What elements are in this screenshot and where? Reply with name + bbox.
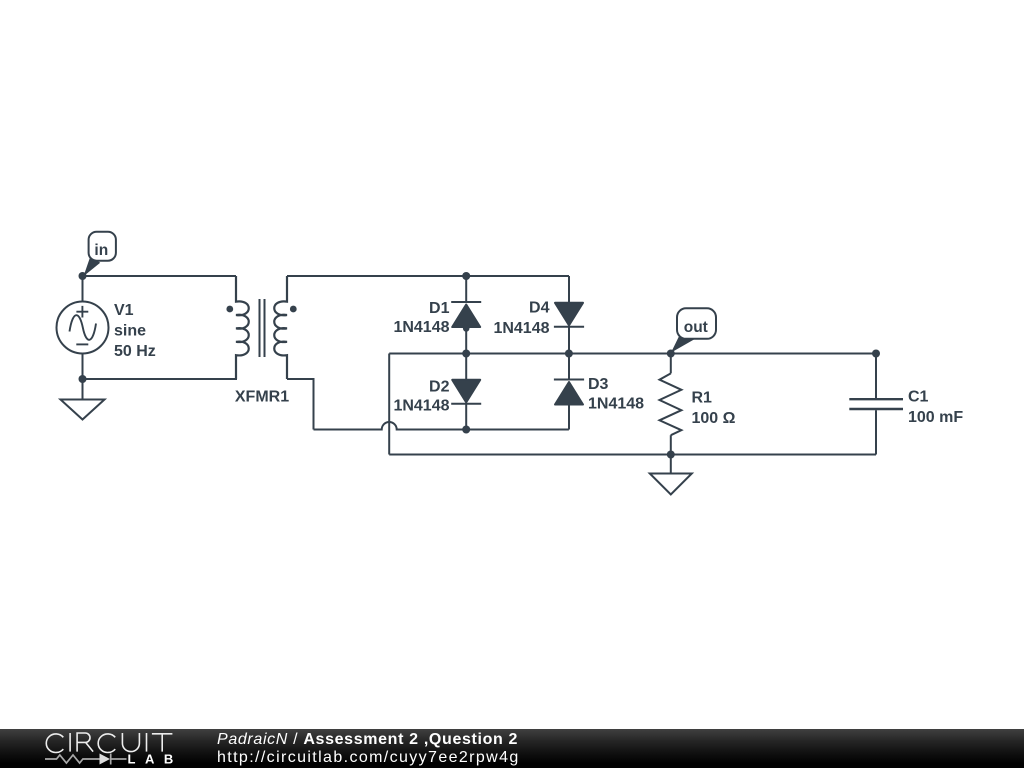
svg-text:V1: V1 <box>114 302 134 319</box>
transformer XFMR1 secondary winding <box>274 276 287 379</box>
svg-text:sine: sine <box>114 323 146 340</box>
wire cross vertical (middle rail to lower rail) <box>388 354 390 455</box>
transformer secondary dot <box>290 306 297 313</box>
wire top rail left (in node to transformer primary) <box>83 275 237 277</box>
letter U <box>122 733 139 752</box>
svg-text:out: out <box>684 319 708 336</box>
node dot top rail D1 <box>462 272 470 280</box>
node dot C1 top <box>872 350 880 358</box>
svg-text:1N4148: 1N4148 <box>588 396 644 413</box>
svg-text:XFMR1: XFMR1 <box>235 389 289 406</box>
letter R <box>77 733 93 752</box>
letter C <box>46 734 63 753</box>
wire middle rail <box>389 353 876 355</box>
footer url line <box>217 749 520 767</box>
wire out node to R1 top <box>670 354 672 374</box>
node dot in <box>79 272 87 280</box>
wire C1 top <box>875 354 877 399</box>
svg-text:D2: D2 <box>429 379 450 396</box>
CircuitLab logo wordmark <box>0 729 200 768</box>
node dot bottom rail D2 <box>462 426 470 434</box>
svg-text:1N4148: 1N4148 <box>493 320 549 337</box>
svg-text:100 mF: 100 mF <box>908 409 963 426</box>
letter C <box>98 734 115 753</box>
svg-text:1N4148: 1N4148 <box>393 319 449 336</box>
svg-text:D1: D1 <box>429 300 450 317</box>
resistor R1 <box>660 373 682 435</box>
diode D2 <box>452 380 480 403</box>
svg-text:1N4148: 1N4148 <box>393 397 449 414</box>
wire D3 anode to bottom rail <box>568 405 570 430</box>
wire D1 cathode up to top rail <box>465 276 467 302</box>
node dot middle rail D1 D2 <box>462 350 470 358</box>
letter T <box>152 734 173 752</box>
svg-text:R1: R1 <box>692 390 713 407</box>
capacitor C1 <box>849 398 903 400</box>
wire D1 anode to middle rail <box>465 327 467 354</box>
wire ground stub R1 <box>670 455 672 474</box>
wire D2 anode from middle rail <box>465 354 467 381</box>
svg-text:LAB: LAB <box>128 751 183 766</box>
wire R1 bottom to lower rail <box>670 435 672 454</box>
wire bottom rail (V1 to transformer primary bottom) <box>83 355 237 379</box>
diode D1 <box>451 301 481 303</box>
ground under V1 <box>61 400 105 420</box>
svg-text:in: in <box>94 242 108 259</box>
wire bridge bottom rail with hop <box>314 422 569 429</box>
wire in node to V1 top <box>82 276 84 302</box>
svg-text:D3: D3 <box>588 376 609 393</box>
node dot middle rail D4 D3 <box>565 350 573 358</box>
transformer core <box>260 299 265 357</box>
node dot out <box>667 350 675 358</box>
footer title line <box>217 731 518 749</box>
wire V1 bottom to node <box>82 354 84 380</box>
voltage source V1 <box>57 302 109 354</box>
wire top rail to D4 <box>568 276 570 303</box>
wire D2 cathode to bottom rail <box>465 404 467 430</box>
transformer primary dot <box>226 306 233 313</box>
logo resistor diode art <box>45 754 127 765</box>
diode D3 <box>554 379 584 381</box>
ground under R1 <box>650 474 692 495</box>
wire secondary bottom jog <box>287 379 314 430</box>
letter I <box>69 733 71 752</box>
node in flag pointer <box>84 256 101 276</box>
wire secondary top to bridge top rail <box>287 275 569 277</box>
diode D4 <box>555 303 583 326</box>
node in flag box <box>89 232 116 261</box>
wire ground stub V1 <box>82 379 84 400</box>
wire C1 bottom <box>875 410 877 454</box>
node out flag box <box>677 308 716 339</box>
node dot R1 bottom <box>667 451 675 459</box>
wire middle rail to D3 <box>568 354 570 380</box>
wire lower rail <box>389 454 876 456</box>
node out flag pointer <box>671 335 695 352</box>
letter I <box>146 733 148 752</box>
svg-text:D4: D4 <box>529 300 550 317</box>
svg-text:50 Hz: 50 Hz <box>114 343 156 360</box>
wire D4 cathode to middle rail <box>568 327 570 354</box>
node dot V1 bottom <box>79 375 87 383</box>
svg-text:C1: C1 <box>908 389 929 406</box>
transformer XFMR1 primary winding <box>236 276 249 379</box>
footer bar <box>0 729 1024 768</box>
svg-text:100 Ω: 100 Ω <box>692 410 736 427</box>
